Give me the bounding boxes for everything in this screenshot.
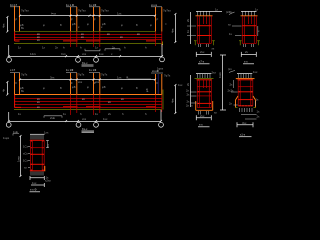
svg-text:F: F: [157, 18, 159, 22]
svg-text:7φ7x: 7φ7x: [101, 73, 108, 77]
s2 bottom line: [242, 42, 256, 44]
svg-text:φ8: φ8: [72, 85, 76, 89]
axis bubble e2-3: [94, 122, 99, 127]
s1 title underline: [198, 63, 210, 65]
s1 bottom line: [197, 42, 211, 44]
s4 top rebar band: [238, 79, 254, 81]
svg-text:xCx: xCx: [23, 152, 28, 156]
svg-text:F: F: [157, 81, 159, 85]
beam2 sub dimension bracket: [44, 116, 62, 118]
s1 top dimension line: [196, 10, 222, 12]
beam rebar line 2: [14, 36, 162, 38]
svg-text:KL-x: KL-x: [82, 61, 88, 65]
total dimension line: [9, 55, 162, 57]
s4 left dim: [233, 80, 235, 88]
svg-text:φ8: φ8: [72, 22, 76, 26]
column KZ-B2 label underline: [66, 71, 77, 73]
s2 right stirrup line: [254, 16, 256, 43]
svg-text:1xxx: 1xxx: [218, 72, 222, 78]
s1 top rebar ticks: [198, 12, 210, 16]
beam2 left bent bar hook: [15, 95, 21, 108]
column KZ-D (orange pair): [156, 7, 162, 32]
s1 olive corner left: [194, 41, 197, 46]
tall dim vertical line: [222, 55, 224, 110]
beam2 left extension: [8, 112, 10, 121]
s2 left stirrup line: [242, 16, 244, 43]
s4 top rebar ticks: [239, 74, 252, 78]
s1 bottom rebar ticks: [199, 44, 209, 47]
column KZ-D2 axis line (dark blue): [157, 74, 159, 95]
svg-text:1x 1Φ: 1x 1Φ: [66, 68, 73, 72]
s5 top line: [30, 139, 45, 141]
svg-text:2xE: 2xE: [50, 116, 55, 120]
s2 slab line (orange): [241, 15, 258, 17]
left height dimension: [6, 16, 8, 33]
s5 rebar band a: [30, 147, 44, 149]
s5 bottom dim 2: [31, 183, 44, 187]
beam2 right extension: [160, 110, 162, 121]
svg-text:1Cx: 1Cx: [23, 145, 29, 149]
svg-text:2x2x: 2x2x: [228, 88, 235, 92]
support B bottom bar hook: [63, 40, 78, 42]
svg-text:Cxx: Cxx: [61, 52, 66, 56]
s5 bar leader b: [28, 153, 30, 155]
elevation 1 title underline: [82, 64, 94, 66]
s1 rebar band 2: [197, 35, 211, 37]
svg-text:φ: φ: [87, 22, 89, 26]
svg-text:x2xx: x2xx: [45, 179, 51, 183]
s4 bottom rebar ticks: [240, 108, 253, 112]
s5 right top dim: [46, 140, 49, 147]
s3 top rebar ticks: [198, 74, 211, 78]
s3 top rebar band: [197, 79, 213, 81]
svg-text:7φ7x: 7φ7x: [164, 74, 171, 78]
beam2 column B edges: [71, 95, 77, 116]
svg-text:xxx: xxx: [78, 80, 83, 84]
s5 bottom line: [30, 170, 45, 172]
column KZ-A2 (orange pair): [15, 73, 20, 95]
s2 band2 leader: [235, 35, 242, 37]
svg-text:F: F: [94, 81, 96, 85]
total dimension ticks: [8, 55, 163, 57]
svg-text:7φ7xx: 7φ7xx: [78, 9, 86, 13]
s3 bottom rebar ticks: [199, 111, 209, 115]
s4 orange flare left: [236, 96, 239, 108]
s3 title underline: [198, 126, 210, 128]
s4 orange flare right: [253, 96, 256, 108]
svg-text:xxx: xxx: [82, 52, 87, 56]
svg-text:F: F: [71, 18, 73, 22]
support C bottom bar hook: [86, 40, 101, 42]
column KZ-D2 long leader: [128, 78, 151, 80]
s4 flare end olive left: [235, 107, 238, 109]
s2 title underline: [243, 63, 254, 65]
svg-text:1x 1Φ: 1x 1Φ: [89, 3, 96, 7]
left end bent bar with hook: [15, 32, 20, 42]
column KZ-C (orange pair): [94, 7, 100, 32]
svg-text:1xx: 1xx: [32, 181, 37, 185]
column KZ-B (orange pair): [71, 7, 77, 32]
s5 bar leader d: [28, 167, 30, 169]
s3 slab line (olive): [195, 78, 214, 80]
beam2 rebar line 1: [14, 98, 162, 100]
column KZ-D label underline: [151, 6, 162, 8]
s4 right stirrup line: [251, 80, 253, 106]
svg-text:1xx: 1xx: [253, 70, 258, 74]
svg-text:φ8: φ8: [145, 88, 149, 92]
column KZ-B label underline: [66, 6, 77, 8]
svg-text:x7-x: x7-x: [199, 59, 205, 63]
tall dim top tick: [220, 54, 226, 56]
s1 left stirrup line: [197, 16, 199, 43]
beam bottom chord (olive): [14, 43, 162, 45]
s3 leader a: [190, 91, 197, 93]
svg-text:4xx: 4xx: [171, 98, 175, 103]
s5 top dimension line: [30, 133, 45, 135]
beam2 end break tick (olive): [162, 90, 164, 110]
beam top chord (olive): [14, 31, 156, 33]
s1 left height dim: [190, 12, 192, 44]
svg-text:2xx: 2xx: [200, 114, 205, 118]
s5 bar leader c: [28, 160, 30, 162]
sub dimension bracket 2: [105, 49, 120, 51]
column KZ-C label underline: [89, 6, 100, 8]
beam2 support D hook: [146, 106, 156, 108]
column KZ-A (orange pair): [15, 6, 20, 32]
axis bubble e2-4: [159, 122, 164, 127]
s4 right upper bracket: [255, 101, 257, 106]
svg-text:1xx: 1xx: [44, 131, 49, 135]
svg-text:1xx: 1xx: [178, 83, 183, 87]
s2 top dimension line: [241, 10, 257, 12]
svg-text:x1-x: x1-x: [240, 132, 246, 136]
svg-text:2xx: 2xx: [200, 50, 205, 54]
column KZ-D2 (orange pair): [156, 74, 162, 95]
svg-text:φ: φ: [43, 86, 45, 90]
s5 rebar band c: [30, 163, 44, 165]
s4 rebar dots: [239, 79, 253, 106]
s5 title underline: [30, 191, 41, 193]
svg-text:(xx: (xx: [228, 67, 232, 71]
beam rebar line 3: [14, 39, 162, 41]
s5 left height dimension: [20, 135, 22, 177]
s2 leader swirl: [229, 12, 235, 15]
s4 leader a: [231, 91, 238, 93]
s1 mid bar tails: [204, 16, 207, 24]
s3 orange bottom U: [196, 101, 213, 110]
right height dim e2: [174, 84, 176, 114]
column KZ-A2 label underline: [10, 71, 20, 73]
beam2 support B hook: [63, 106, 78, 108]
s4 right leader 1: [241, 113, 257, 115]
dim ticks elevation2: [19, 79, 156, 81]
s4 flare end olive right: [254, 107, 257, 109]
beam2 total dimension ticks: [8, 120, 162, 122]
s2 bottom dimension: [241, 52, 256, 57]
svg-text:x.17: x.17: [10, 68, 16, 72]
right height dimension: [174, 13, 176, 43]
svg-text:φ: φ: [87, 85, 89, 89]
sub dimension bracket 1: [85, 49, 100, 51]
s2 rebar band 1: [242, 25, 256, 27]
svg-text:3xx: 3xx: [242, 121, 247, 125]
axis bubble 4: [160, 57, 165, 62]
s3 leader c: [191, 102, 197, 104]
svg-text:1xE: 1xE: [13, 130, 18, 134]
svg-text:3xx: 3xx: [50, 75, 55, 79]
svg-text:φ: φ: [121, 23, 123, 27]
s3 left stirrup line: [197, 80, 199, 108]
s3 rebar band d: [197, 102, 211, 104]
svg-text:7φ7x: 7φ7x: [78, 73, 85, 77]
top dimension ticks: [19, 15, 156, 17]
s3 bottom dimension: [196, 115, 211, 120]
svg-text:F: F: [16, 81, 18, 85]
svg-text:2xx: 2xx: [212, 70, 217, 74]
svg-text:φ: φ: [150, 23, 152, 27]
svg-text:xxx: xxx: [95, 80, 100, 84]
s4 slab line (orange): [236, 78, 255, 80]
s3 rebar band c: [197, 95, 211, 97]
svg-text:φ8: φ8: [102, 22, 106, 26]
s4 left stirrup line: [238, 80, 240, 106]
svg-text:F: F: [71, 81, 73, 85]
beam2 top chord (orange): [14, 94, 162, 96]
s5 bar leader a: [28, 146, 30, 148]
s5 rebar dots: [31, 140, 44, 170]
svg-text:1C.17: 1C.17: [10, 3, 18, 7]
s2 band1 leader: [232, 25, 242, 27]
svg-text:1xx: 1xx: [103, 117, 108, 121]
beam rebar line 1: [14, 33, 162, 35]
axis bubble e2-1: [6, 122, 11, 127]
svg-text:1xx: 1xx: [117, 12, 122, 16]
svg-text:1xx.: 1xx.: [99, 52, 104, 56]
svg-text:1xxx: 1xxx: [16, 156, 20, 162]
s2 olive corner right: [257, 41, 260, 46]
column KZ-C2 label underline: [89, 71, 100, 73]
svg-text:7φ7xx: 7φ7xx: [101, 9, 109, 13]
svg-text:l=xx: l=xx: [51, 12, 57, 16]
s4 rebar band b with dots: [238, 91, 253, 93]
s1 olive corner right: [212, 41, 215, 46]
svg-text:1xx: 1xx: [117, 75, 122, 79]
beam2 column D edges: [156, 95, 162, 113]
svg-text:Kx-x: Kx-x: [82, 127, 88, 131]
s2 top rebar ticks: [243, 12, 255, 16]
svg-text:x-x Φ: x-x Φ: [30, 188, 36, 192]
beam2 support C hook: [86, 106, 101, 108]
left height dim e2: [6, 81, 8, 96]
svg-text:φ: φ: [43, 23, 45, 27]
svg-text:φ8: φ8: [102, 85, 106, 89]
s3 rebar band a: [197, 86, 211, 88]
s2 mid bar tails: [249, 16, 252, 24]
s2 right bracket: [257, 26, 259, 36]
right extension to axis: [161, 44, 163, 56]
beam1 end break tick: [162, 42, 164, 46]
column B edges through beam: [71, 32, 77, 48]
column KZ-B2 (orange pair): [71, 73, 77, 95]
svg-text:2x 1x: 2x 1x: [186, 103, 193, 107]
s5 rebar band b: [30, 153, 44, 155]
s4 rebar band c: [238, 99, 253, 101]
s4 bottom rebar row: [238, 105, 253, 107]
beam2 rebar line 4: [14, 106, 162, 108]
beam2 rebar line 3: [14, 104, 162, 106]
axis bubble 2: [76, 57, 81, 62]
svg-text:φ: φ: [121, 86, 123, 90]
svg-text:xx.xΦ: xx.xΦ: [152, 69, 159, 73]
s3 rebar dots: [198, 79, 211, 104]
s5 right stirrup line: [42, 140, 44, 171]
column KZ-C2 (orange pair): [94, 73, 100, 95]
s4 right leader 2: [245, 118, 257, 120]
svg-text:14xx: 14xx: [30, 52, 37, 56]
axis bubble 3: [94, 57, 99, 62]
column KZ-D2 label underline: [151, 72, 163, 74]
axis bubble e2-2: [76, 122, 81, 127]
s3 top dimension line: [196, 73, 211, 75]
svg-text:1Cx: 1Cx: [23, 159, 29, 163]
s4 bottom dimension: [237, 122, 253, 127]
s5 left stirrup line: [30, 140, 32, 171]
s5 bottom rebar ticks: [31, 172, 43, 176]
s2 bottom rebar ticks: [244, 44, 254, 47]
s2 olive corner left: [239, 41, 242, 46]
svg-text:1xφx: 1xφx: [3, 136, 10, 140]
beam2 bottom chord (olive): [14, 109, 162, 111]
s2 rebar band 2: [242, 35, 256, 37]
svg-text:7φ7xx: 7φ7xx: [163, 9, 171, 13]
column KZ-A label underline: [10, 6, 20, 8]
svg-text:7φ7x: 7φ7x: [21, 73, 28, 77]
support D bottom bar hook: [146, 40, 156, 42]
svg-text:7φ7xx: 7φ7xx: [21, 9, 29, 13]
s5 top rebar ticks: [31, 135, 43, 140]
s1 bottom dimension: [196, 52, 211, 57]
s3 mid bar tails: [204, 80, 207, 88]
column D edges through beam: [156, 32, 162, 48]
s5 orange right edge: [44, 166, 46, 171]
beam2 total dimension line: [9, 120, 161, 122]
s1 slab line (orange): [196, 15, 213, 17]
s3 right stirrup line: [209, 80, 211, 108]
dim line elevation2: [20, 79, 155, 81]
s1 right stirrup line: [209, 16, 211, 43]
s4 title underline: [239, 136, 252, 138]
s4 leader swirl: [229, 71, 235, 73]
top dimension line: [20, 15, 155, 17]
column C edges through beam: [94, 32, 100, 48]
svg-text:1x 1Φ: 1x 1Φ: [89, 68, 96, 72]
s3 leader b: [191, 95, 197, 97]
s3 bottom line: [197, 107, 211, 109]
s5 left bracket: [13, 134, 19, 136]
s5 bottom dim 1: [30, 176, 44, 180]
elevation 2 title underline: [82, 131, 95, 132]
tall dim bottom tick: [220, 109, 226, 111]
s1 rebar band 1: [197, 25, 211, 27]
s1 left dim ticks: [187, 26, 196, 36]
beam2 column C edges: [94, 95, 100, 116]
svg-text:F: F: [94, 18, 96, 22]
svg-text:4xx: 4xx: [2, 23, 6, 28]
left extension to axis: [8, 45, 10, 56]
s3 rebar band b with dots: [197, 91, 211, 93]
svg-text:F: F: [16, 18, 18, 22]
s3 left height dim: [190, 75, 192, 107]
s4 rebar band a: [238, 86, 253, 88]
svg-text:xxx: xxx: [82, 117, 87, 121]
s4 leader b: [234, 104, 238, 106]
svg-text:4xx: 4xx: [171, 28, 175, 33]
beam2 rebar line 2: [14, 101, 162, 103]
axis bubble 1: [7, 57, 12, 62]
s4 top dimension line: [237, 73, 252, 75]
svg-text:1x 1.Φ: 1x 1.Φ: [66, 3, 74, 7]
